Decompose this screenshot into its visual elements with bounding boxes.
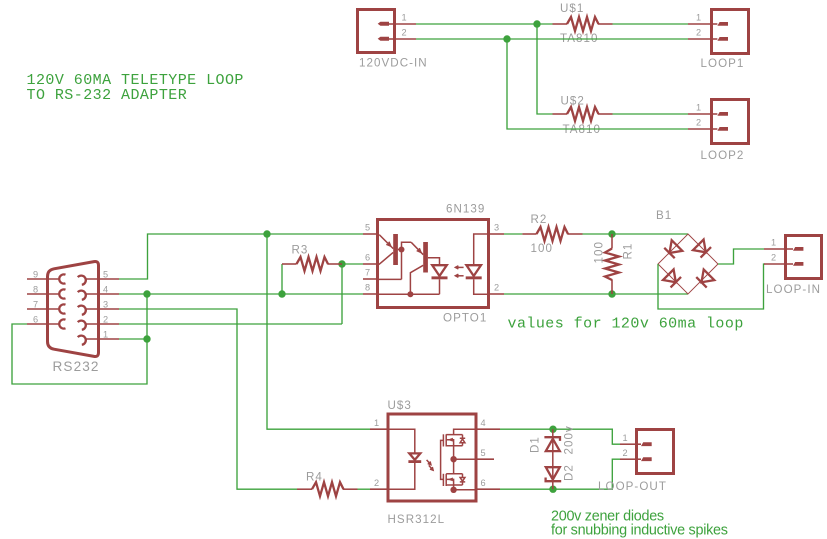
wire R4 to U$3 pin2	[358, 488, 371, 490]
pin 4 of U$3	[475, 418, 500, 429]
svg-text:1: 1	[374, 418, 379, 428]
svg-text:6: 6	[33, 314, 38, 324]
transistor Q1 darlington input of OPTO1	[379, 234, 411, 279]
wire branch to U$2	[537, 24, 553, 114]
pin 3 of RS232	[86, 299, 119, 309]
svg-text:R3: R3	[292, 244, 309, 257]
svg-text:2: 2	[494, 283, 499, 293]
connector LOOP2	[701, 100, 749, 162]
svg-text:8: 8	[365, 283, 370, 293]
svg-text:U$2: U$2	[561, 94, 585, 107]
resistor U$1 TA810	[553, 2, 613, 45]
pin 2 of LOOP-OUT	[620, 448, 635, 459]
svg-text:100: 100	[593, 241, 606, 264]
solid-state-relay U$3 HSR312L	[388, 399, 477, 526]
pin 2 of 120VDC-IN	[396, 28, 416, 39]
wire R3 right to OPTO1 pin6 and down to row324	[342, 264, 363, 324]
svg-text:B1: B1	[656, 209, 672, 222]
wire U$2 out to LOOP2 pin1	[613, 113, 689, 115]
svg-text:R4: R4	[306, 471, 323, 484]
svg-text:1: 1	[623, 433, 628, 443]
node junction pin4/R3	[278, 290, 285, 297]
node junction R3 right	[338, 260, 345, 267]
pin 2 of RS232	[86, 314, 119, 324]
node junction pin1	[143, 335, 150, 342]
wire B1 left to LOOP-IN pin2	[658, 264, 765, 309]
pin 6 of U$3	[475, 478, 500, 489]
connector 120VDC-IN	[358, 10, 428, 70]
svg-text:U$3: U$3	[388, 399, 412, 412]
wire RS232 pin4 to OPTO1 pin8	[119, 293, 363, 295]
pin 5 of RS232	[86, 269, 119, 279]
svg-text:R1: R1	[622, 243, 635, 260]
svg-text:1: 1	[402, 13, 407, 23]
svg-text:R2: R2	[531, 213, 548, 226]
svg-text:1: 1	[696, 103, 701, 113]
wire U$3 pin4 to LOOP-OUT pin1	[500, 429, 620, 444]
wire RS232 pin3 down to R4	[119, 309, 297, 489]
svg-text:120VDC-IN: 120VDC-IN	[359, 57, 428, 70]
svg-text:TA810: TA810	[560, 32, 599, 45]
diode LED of U$3	[389, 429, 421, 489]
connector LOOP1	[701, 10, 749, 71]
pin 1 of LOOP2	[688, 103, 710, 114]
svg-text:2: 2	[402, 28, 407, 38]
node junction R1 top	[608, 230, 615, 237]
connector RS232 DB9	[48, 261, 100, 374]
pin 8 of RS232	[27, 284, 59, 294]
svg-text:6: 6	[365, 253, 370, 263]
diode LED of OPTO1	[466, 234, 489, 294]
pin 1 of LOOP1	[688, 13, 710, 24]
pin 1 of LOOP-IN	[764, 238, 784, 249]
resistor R3	[282, 244, 342, 272]
diode top-right of B1	[693, 240, 711, 258]
connector LOOP-OUT	[598, 430, 674, 493]
resistor R1 100 (vertical)	[593, 234, 635, 294]
diode top-left of B1	[664, 240, 682, 258]
wire internal pin8 rail of OPTO1	[379, 291, 440, 297]
svg-text:2: 2	[103, 314, 108, 324]
svg-text:2: 2	[623, 448, 628, 458]
wire branch to LOOP2 pin2	[507, 39, 688, 129]
optocoupler OPTO1 6N139	[378, 203, 489, 325]
svg-text:2: 2	[771, 253, 776, 263]
diode bottom-right of B1	[696, 270, 714, 288]
pin 4 of RS232	[86, 284, 119, 294]
wire net 120VDC- row2	[416, 38, 688, 40]
pin 1 of U$3	[370, 418, 389, 429]
svg-text:5: 5	[103, 269, 108, 279]
svg-text:LOOP2: LOOP2	[701, 149, 745, 162]
wire gate bus of U$3	[441, 440, 444, 479]
wire net 120VDC+ row1	[416, 23, 553, 25]
diode output of OPTO1	[432, 265, 448, 294]
pin 2 of OPTO1	[489, 283, 505, 294]
wire R3 left drop to row294	[281, 264, 283, 294]
pin 1 of 120VDC-IN	[396, 13, 416, 24]
pin 3 of OPTO1	[489, 223, 505, 234]
svg-text:for snubbing inductive spikes: for snubbing inductive spikes	[551, 522, 728, 538]
svg-text:LOOP-IN: LOOP-IN	[766, 283, 821, 296]
pin 2 of U$3	[370, 478, 389, 489]
transistor M2 bottom mosfet of U$3	[443, 474, 465, 490]
svg-text:7: 7	[365, 268, 370, 278]
pin 6 of OPTO1	[363, 253, 378, 264]
svg-text:7: 7	[33, 299, 38, 309]
svg-text:100: 100	[531, 242, 554, 255]
svg-text:200v: 200v	[563, 425, 576, 454]
note text zener	[551, 508, 728, 538]
wire U$3 pin6 to LOOP-OUT pin2	[500, 459, 620, 489]
wire RS232 pin1 stub	[119, 338, 147, 340]
pin 5 of OPTO1	[363, 223, 378, 234]
light arrows of OPTO1	[455, 266, 463, 278]
svg-text:U$1: U$1	[560, 2, 584, 15]
svg-text:1: 1	[771, 238, 776, 248]
svg-text:2: 2	[696, 28, 701, 38]
node junction row2/LOOP2	[503, 35, 510, 42]
svg-text:HSR312L: HSR312L	[388, 513, 446, 526]
svg-text:5: 5	[365, 223, 370, 233]
svg-text:8: 8	[33, 284, 38, 294]
pin 7 of OPTO1	[363, 268, 378, 279]
pin 8 of OPTO1	[363, 283, 378, 294]
wire B1 right to LOOP-IN pin1	[718, 249, 764, 264]
resistor R4	[297, 471, 358, 497]
pin 1 of RS232	[86, 329, 119, 339]
light arrows of U$3	[427, 460, 434, 470]
pin 6 of RS232	[27, 314, 59, 324]
resistor R2 100	[522, 213, 582, 255]
wire branch junction row234 down to U$3 pin1	[267, 234, 370, 429]
wire pin6 loop to pin1/pin4 net	[12, 294, 147, 384]
pin 7 of RS232	[27, 299, 59, 309]
bridge rectifier B1	[656, 209, 718, 294]
svg-text:3: 3	[103, 299, 108, 309]
pin 2 of LOOP-IN	[764, 253, 784, 264]
wire U$1 out to LOOP1 pin1	[613, 23, 689, 25]
diode D2 200v zener	[546, 464, 576, 481]
svg-text:D1: D1	[529, 436, 542, 453]
title text	[27, 72, 244, 104]
wire R2 to B1 top	[583, 233, 689, 235]
svg-text:1: 1	[696, 13, 701, 23]
pin 2 of LOOP2	[688, 118, 710, 129]
svg-text:LOOP-OUT: LOOP-OUT	[598, 480, 667, 493]
node junction R1 bottom	[608, 290, 615, 297]
svg-text:6: 6	[481, 478, 486, 488]
wire RS232 pin5 to OPTO1 pin5	[119, 234, 363, 279]
svg-text:values for 120v 60ma loop: values for 120v 60ma loop	[508, 316, 744, 333]
node junction D2 bottom	[549, 486, 556, 493]
svg-text:RS232: RS232	[53, 359, 100, 374]
pin 2 of LOOP1	[688, 28, 710, 39]
resistor U$2 TA810	[553, 94, 613, 136]
node junction opto pin5 branch	[263, 230, 270, 237]
wire OPTO1 pin2 to B1 bottom	[504, 293, 688, 295]
svg-text:TO RS-232 ADAPTER: TO RS-232 ADAPTER	[27, 87, 188, 104]
pin 9 of RS232	[27, 269, 59, 279]
svg-text:3: 3	[494, 223, 499, 233]
node junction pin4/pin1	[143, 290, 150, 297]
svg-text:D2: D2	[563, 464, 576, 481]
node junction D1 top	[549, 426, 556, 433]
svg-text:OPTO1: OPTO1	[443, 311, 487, 324]
node U$3 pin5 junction	[450, 456, 475, 474]
diode bottom-left of B1	[663, 269, 681, 287]
node junction row1/U$2	[533, 20, 540, 27]
svg-text:1: 1	[103, 329, 108, 339]
wire OPTO1 pin3 to R2	[504, 233, 522, 235]
svg-text:4: 4	[103, 284, 108, 294]
svg-text:9: 9	[33, 269, 38, 279]
transistor Q2 darlington output of OPTO1	[410, 242, 439, 294]
node U$3 pin6 junction	[450, 487, 475, 493]
connector LOOP-IN	[766, 236, 822, 297]
pin 5 of U$3	[475, 448, 494, 459]
svg-text:4: 4	[481, 418, 486, 428]
pin 1 of LOOP-OUT	[620, 433, 635, 444]
svg-text:2: 2	[374, 478, 379, 488]
transistor M1 top mosfet of U$3	[443, 429, 475, 459]
svg-text:5: 5	[481, 448, 486, 458]
wire RS232 pin2 to R3/OPTO1 pin6 branch	[119, 323, 342, 325]
diode D1 200v zener	[529, 425, 576, 489]
svg-text:2: 2	[696, 118, 701, 128]
svg-text:6N139: 6N139	[446, 203, 485, 216]
svg-text:LOOP1: LOOP1	[701, 57, 745, 70]
